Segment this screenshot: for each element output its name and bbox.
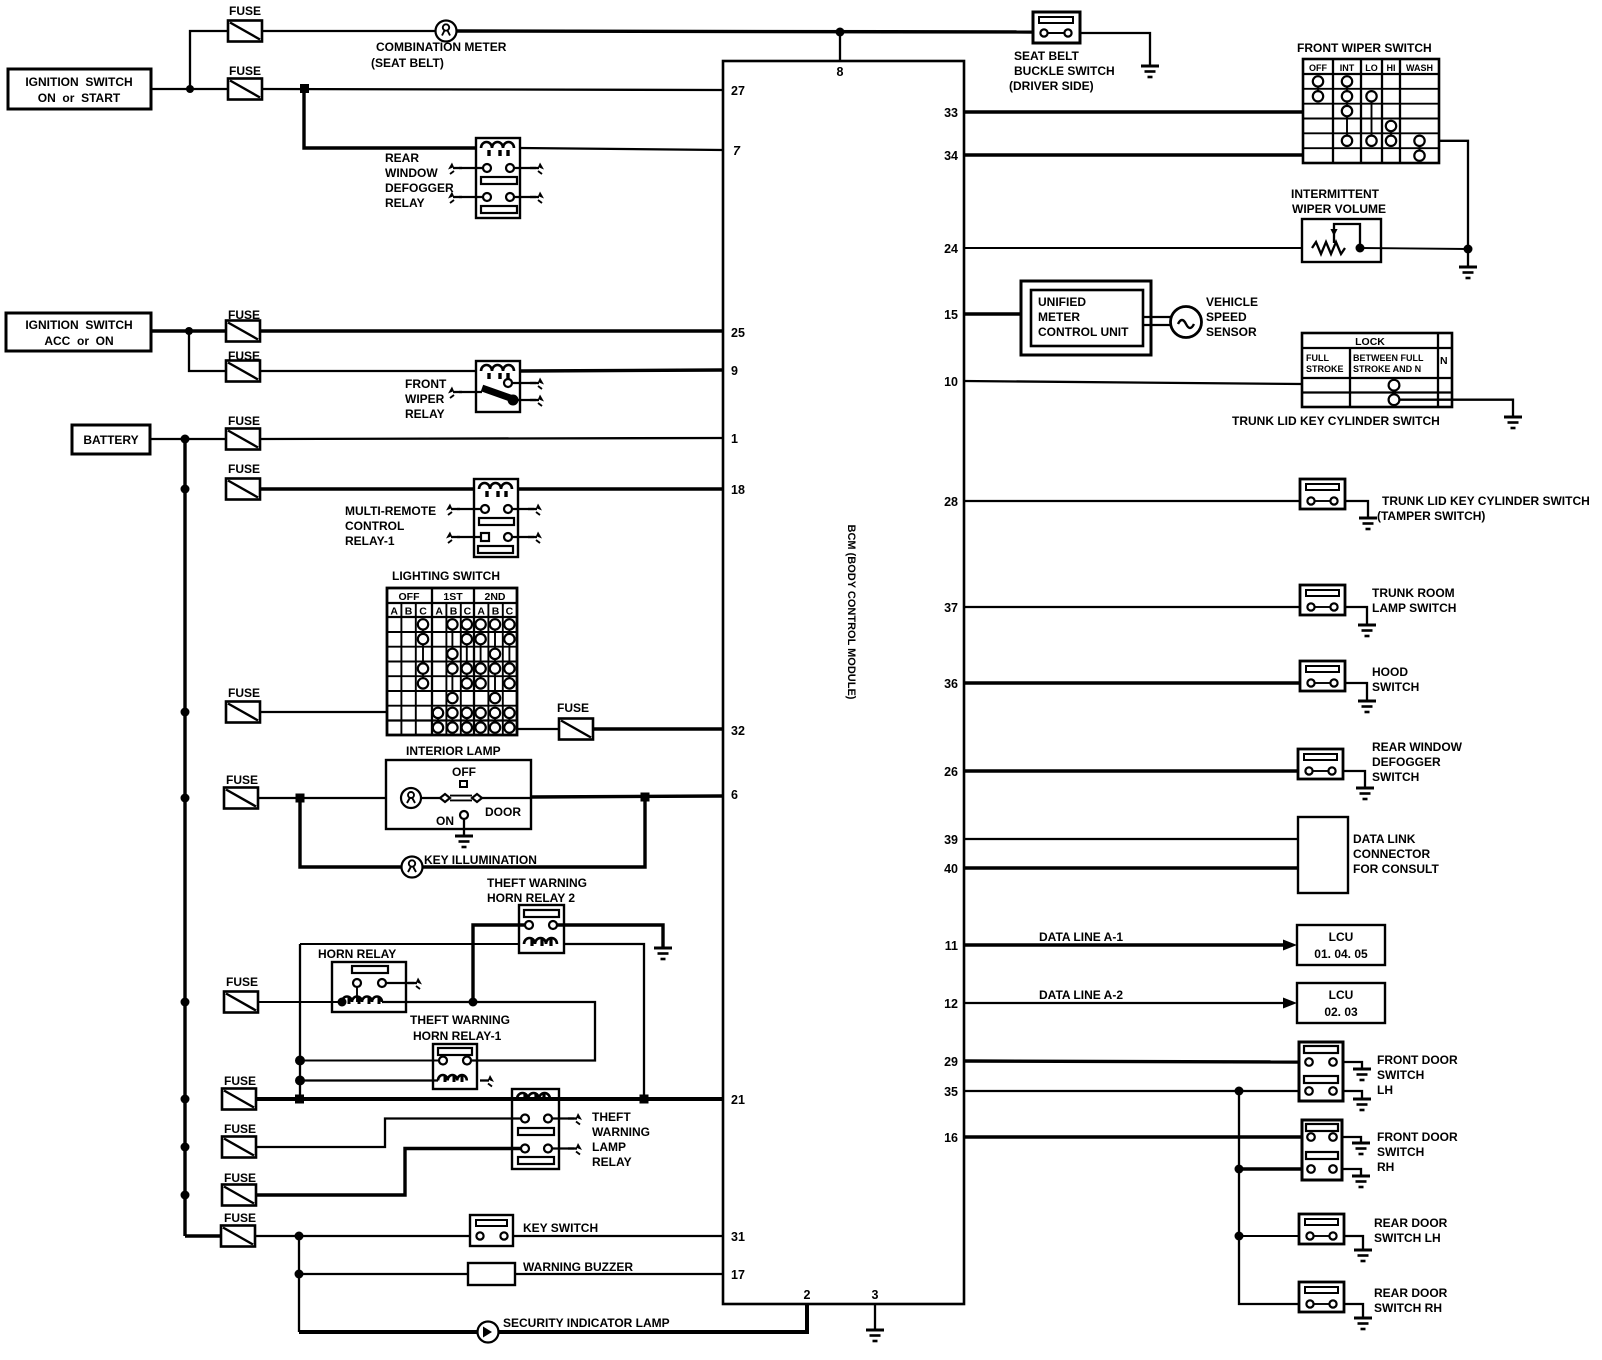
wire branch down to buzzer line (298, 1236, 300, 1332)
wire F7 to lighting switch (260, 711, 387, 713)
wire BCM pin 36 to hood switch (964, 681, 1300, 684)
BCM (Body Control Module) box U1 (723, 61, 964, 1304)
wire defogger relay to BCM pin 7 (520, 148, 723, 150)
svg-text:WIPER: WIPER (405, 392, 445, 406)
junction pin21-riser right (640, 1095, 649, 1104)
wire relay1 coil to riser (299, 1079, 438, 1081)
fuse F12 (222, 1185, 256, 1206)
wire BCM pin 3 to ground (874, 1304, 876, 1330)
svg-text:C: C (464, 606, 472, 618)
svg-text:OFF: OFF (1309, 63, 1327, 73)
svg-text:11: 11 (945, 939, 958, 953)
ground front door LH lower (1353, 1098, 1371, 1110)
wire buzzer to BCM pin 17 (515, 1273, 723, 1275)
svg-text:2: 2 (804, 1288, 811, 1302)
junction bus-F9 (181, 998, 190, 1007)
svg-text:FULL: FULL (1306, 353, 1329, 363)
svg-text:DOOR: DOOR (485, 805, 521, 819)
junction door bus rear LH (1235, 1232, 1244, 1241)
svg-text:29: 29 (944, 1055, 958, 1069)
svg-text:27: 27 (731, 84, 745, 98)
wire bus corner to F13 (185, 1234, 221, 1237)
svg-text:24: 24 (944, 242, 958, 256)
junction node A (pin27 branch) (300, 84, 309, 93)
wire to warning buzzer (299, 1273, 468, 1275)
junction battery bus top (181, 435, 190, 444)
svg-text:SWITCH: SWITCH (1372, 680, 1419, 694)
svg-text:15: 15 (944, 308, 958, 322)
svg-text:BCM (BODY CONTROL MODULE): BCM (BODY CONTROL MODULE) (845, 525, 857, 700)
combination meter (seat belt) lamp (371, 21, 507, 71)
junction pin21-riser left (295, 1095, 304, 1104)
wire defogger switch to ground (1343, 771, 1365, 788)
svg-text:THEFT: THEFT (592, 1110, 631, 1124)
junction door bus top (1235, 1087, 1244, 1096)
svg-text:SWITCH: SWITCH (1377, 1145, 1424, 1159)
svg-text:10: 10 (944, 375, 958, 389)
fuse F13 (221, 1226, 255, 1247)
svg-text:BATTERY: BATTERY (83, 433, 138, 447)
svg-text:REAR WINDOW: REAR WINDOW (1372, 740, 1463, 754)
fuse F2 (228, 79, 262, 100)
svg-text:C: C (506, 606, 514, 618)
svg-text:31: 31 (731, 1230, 745, 1244)
svg-text:DATA LINE A-1: DATA LINE A-1 (1039, 930, 1123, 944)
ground trunk room lamp switch (1358, 624, 1376, 636)
svg-text:MULTI-REMOTE: MULTI-REMOTE (345, 504, 436, 518)
svg-text:SENSOR: SENSOR (1206, 325, 1257, 339)
svg-text:18: 18 (731, 483, 745, 497)
ground tamper switch (1359, 517, 1377, 529)
svg-text:ON: ON (436, 814, 454, 828)
svg-text:33: 33 (944, 106, 958, 120)
fuse F8 (224, 788, 258, 809)
svg-text:THEFT WARNING: THEFT WARNING (410, 1013, 510, 1027)
svg-text:SECURITY INDICATOR LAMP: SECURITY INDICATOR LAMP (503, 1316, 670, 1330)
svg-text:FRONT DOOR: FRONT DOOR (1377, 1053, 1458, 1067)
svg-text:OFF: OFF (399, 591, 421, 603)
svg-text:HOOD: HOOD (1372, 665, 1408, 679)
svg-text:REAR DOOR: REAR DOOR (1374, 1216, 1448, 1230)
wire BCM pin 34 to front wiper switch (964, 153, 1303, 156)
svg-text:METER: METER (1038, 310, 1080, 324)
trunk room lamp switch (1300, 585, 1456, 615)
svg-text:RELAY: RELAY (385, 196, 425, 210)
fuse F5 (226, 429, 260, 450)
svg-text:COMBINATION METER: COMBINATION METER (376, 40, 507, 54)
svg-text:16: 16 (944, 1131, 958, 1145)
svg-text:ACC or ON: ACC or ON (44, 334, 113, 348)
rear window defogger relay (385, 138, 544, 218)
seat belt buckle switch (driver side) (1009, 12, 1115, 93)
lighting switch contact circles (418, 619, 515, 733)
svg-text:LH: LH (1377, 1083, 1393, 1097)
svg-text:SPEED: SPEED (1206, 310, 1247, 324)
svg-text:WIPER VOLUME: WIPER VOLUME (1292, 202, 1386, 216)
wire front door RH upper to ground (1342, 1137, 1361, 1143)
fuse F11 (222, 1137, 256, 1158)
svg-text:WARNING BUZZER: WARNING BUZZER (523, 1260, 633, 1274)
svg-text:6: 6 (731, 788, 738, 802)
svg-text:REAR DOOR: REAR DOOR (1374, 1286, 1448, 1300)
svg-text:KEY ILLUMINATION: KEY ILLUMINATION (424, 853, 537, 867)
svg-text:39: 39 (944, 833, 958, 847)
wire key switch to BCM pin 31 (513, 1235, 723, 1237)
svg-text:7: 7 (733, 144, 741, 158)
wire F12 to lamp relay lower contact (256, 1149, 521, 1196)
trunk lid key cylinder switch (tamper switch) (1300, 479, 1590, 523)
svg-text:BETWEEN FULL: BETWEEN FULL (1353, 353, 1424, 363)
svg-text:TRUNK LID KEY CYLINDER SWITCH: TRUNK LID KEY CYLINDER SWITCH (1382, 494, 1590, 508)
wire BCM pin 39 to data link connector (964, 838, 1298, 840)
svg-text:KEY SWITCH: KEY SWITCH (523, 1221, 598, 1235)
wire battery to fuse F5 (150, 438, 226, 440)
svg-text:WASH: WASH (1406, 63, 1433, 73)
svg-text:STROKE: STROKE (1306, 364, 1344, 374)
svg-text:RELAY: RELAY (405, 407, 445, 421)
svg-text:CONNECTOR: CONNECTOR (1353, 847, 1430, 861)
fuse F10 (222, 1089, 256, 1110)
wire multi-remote relay to BCM pin 18 (518, 487, 723, 490)
svg-text:26: 26 (944, 765, 958, 779)
junction door bus RH (1235, 1165, 1244, 1174)
svg-text:RELAY: RELAY (592, 1155, 632, 1169)
wire BCM pin 11 to LCU1 (964, 943, 1290, 946)
wire F4 to front wiper relay (260, 370, 476, 372)
wire combination meter to seat belt buckle switch (457, 31, 1034, 32)
svg-text:UNIFIED: UNIFIED (1038, 295, 1086, 309)
svg-text:FUSE: FUSE (228, 414, 260, 428)
interior lamp assembly (386, 744, 531, 836)
junction bus-F7 (181, 708, 190, 717)
data link connector for CONSULT (1298, 817, 1439, 893)
theft warning lamp relay (512, 1089, 650, 1169)
wire security indicator line (299, 1330, 478, 1334)
svg-text:FUSE: FUSE (224, 1074, 256, 1088)
wire F1 to combination meter (262, 30, 436, 32)
svg-text:FUSE: FUSE (557, 701, 589, 715)
svg-text:A: A (477, 606, 485, 618)
wire key illumination loop (300, 798, 402, 867)
svg-text:FUSE: FUSE (228, 462, 260, 476)
svg-text:LCU: LCU (1329, 930, 1354, 944)
svg-text:THEFT WARNING: THEFT WARNING (487, 876, 587, 890)
svg-text:32: 32 (731, 724, 745, 738)
wire BCM pin 16 to front door switch RH (964, 1135, 1302, 1138)
wire ACC riser down (189, 331, 226, 371)
junction bus-F11 (181, 1143, 190, 1152)
wire front wiper relay to BCM pin 9 (520, 370, 723, 371)
ignition switch ACC/ON source box (6, 313, 151, 351)
svg-text:HORN RELAY 2: HORN RELAY 2 (487, 891, 575, 905)
svg-text:9: 9 (731, 364, 738, 378)
junction pin6 branch (641, 793, 650, 802)
svg-text:DATA LINE A-2: DATA LINE A-2 (1039, 988, 1123, 1002)
svg-text:B: B (492, 606, 500, 618)
wire BCM pin 28 to tamper switch (964, 500, 1301, 502)
trunk lid key cylinder switch (lock table) (1232, 333, 1452, 428)
wire F6 to multi-remote control relay (260, 487, 474, 490)
wire BCM pin 15 to unified meter control unit (964, 312, 1021, 315)
svg-text:VEHICLE: VEHICLE (1206, 295, 1258, 309)
svg-text:SEAT BELT: SEAT BELT (1014, 49, 1080, 63)
svg-text:A: A (435, 606, 443, 618)
ground front door RH lower (1352, 1175, 1370, 1187)
fuse F9 (224, 992, 258, 1013)
junction ignition ON bus (186, 85, 194, 93)
wire node 8 to BCM pin 8 (839, 32, 841, 61)
svg-text:FRONT WIPER SWITCH: FRONT WIPER SWITCH (1297, 41, 1432, 55)
svg-text:N: N (1440, 355, 1448, 367)
wire BCM pin 24 to intermittent wiper volume (964, 247, 1302, 249)
wire tamper switch to ground (1345, 501, 1368, 518)
wire junction to ground (1467, 249, 1469, 267)
wire hood switch to ground (1345, 683, 1367, 701)
svg-text:HORN RELAY-1: HORN RELAY-1 (413, 1029, 502, 1043)
wire BCM pin 37 to trunk room lamp switch (964, 606, 1300, 608)
wire front door LH upper to ground (1343, 1062, 1362, 1069)
svg-text:LAMP SWITCH: LAMP SWITCH (1372, 601, 1456, 615)
hood switch (1300, 661, 1419, 694)
fuse F14 (559, 719, 593, 740)
wire F10 to BCM pin 21 (256, 1097, 723, 1101)
svg-text:C: C (419, 606, 427, 618)
svg-text:OFF: OFF (452, 765, 476, 779)
wire trunk room switch to ground (1345, 607, 1367, 625)
wire interior lamp to BCM pin 6 (531, 796, 723, 797)
svg-text:SWITCH: SWITCH (1372, 770, 1419, 784)
wire F14 to BCM pin 32 (593, 727, 723, 730)
ground rear window defogger switch (1356, 787, 1374, 799)
wire F5 to BCM pin 1 (260, 438, 723, 439)
svg-text:STROKE AND N: STROKE AND N (1353, 364, 1421, 374)
wire lighting switch to fuse F14 (517, 728, 559, 730)
battery bus vertical (183, 439, 186, 1236)
svg-text:TRUNK LID KEY CYLINDER SWITCH: TRUNK LID KEY CYLINDER SWITCH (1232, 414, 1440, 428)
junction key illumination branch (296, 794, 305, 803)
warning buzzer (468, 1260, 633, 1285)
svg-text:(DRIVER SIDE): (DRIVER SIDE) (1009, 79, 1094, 93)
wire front wiper switch wash row to intermittent volume junction (1439, 141, 1468, 249)
svg-text:CONTROL UNIT: CONTROL UNIT (1038, 325, 1129, 339)
rear door switch RH (1299, 1282, 1448, 1315)
svg-text:LAMP: LAMP (592, 1140, 626, 1154)
wire relay1 contacts to pin21 riser (299, 1060, 440, 1062)
junction relay1 contact line (295, 1056, 305, 1066)
svg-text:28: 28 (944, 495, 958, 509)
wire ignition ACC to fuse F3 (151, 329, 226, 332)
wire relay2 left contact riser (473, 925, 525, 1002)
front door switch LH (1299, 1042, 1458, 1101)
svg-text:25: 25 (731, 326, 745, 340)
junction relay1 coil line (295, 1076, 305, 1086)
svg-text:LOCK: LOCK (1355, 336, 1385, 348)
svg-text:3: 3 (872, 1288, 879, 1302)
junction bus-F12 (181, 1191, 190, 1200)
svg-text:FUSE: FUSE (224, 1122, 256, 1136)
junction relay2 riser on F9 line (469, 998, 478, 1007)
svg-text:IGNITION SWITCH: IGNITION SWITCH (25, 318, 132, 332)
wire key illumination to pin6 branch (423, 797, 646, 867)
svg-text:1ST: 1ST (443, 591, 463, 603)
svg-text:BUCKLE SWITCH: BUCKLE SWITCH (1014, 64, 1115, 78)
vehicle speed sensor (1171, 295, 1259, 339)
svg-text:FUSE: FUSE (228, 686, 260, 700)
junction bus-F8 (181, 794, 190, 803)
junction node 8 (836, 28, 845, 37)
svg-text:REAR: REAR (385, 151, 419, 165)
wire F8 to interior lamp (258, 797, 386, 799)
key illumination lamp (402, 853, 537, 878)
svg-text:12: 12 (944, 997, 958, 1011)
fuse F6 (226, 479, 260, 500)
key switch (470, 1215, 598, 1246)
unified meter control unit (1021, 281, 1171, 355)
wire BCM pin 10 to trunk lid key cylinder switch (964, 381, 1302, 384)
theft warning horn relay-1 (410, 1013, 510, 1089)
svg-text:RELAY-1: RELAY-1 (345, 534, 395, 548)
svg-text:CONTROL: CONTROL (345, 519, 404, 533)
wire F11 to lamp relay upper contact (256, 1119, 521, 1148)
ground hood switch (1358, 700, 1376, 712)
svg-text:WINDOW: WINDOW (385, 166, 438, 180)
wire F13 to key switch (255, 1235, 470, 1237)
svg-text:FUSE: FUSE (224, 1211, 256, 1225)
wire seat belt switch to ground (1080, 33, 1150, 66)
svg-text:IGNITION SWITCH: IGNITION SWITCH (25, 75, 132, 89)
junction buzzer branch (295, 1270, 304, 1279)
svg-text:SWITCH LH: SWITCH LH (1374, 1231, 1441, 1245)
lighting switch table (387, 569, 517, 735)
wire BCM pin 12 to LCU2 (964, 1002, 1290, 1004)
wire door bus to front door RH lower (1239, 1167, 1302, 1170)
svg-text:HORN RELAY: HORN RELAY (318, 947, 396, 961)
junction ACC bus (185, 327, 193, 335)
wire F9 to horn relay (258, 1001, 342, 1003)
svg-text:34: 34 (944, 149, 958, 163)
svg-text:8: 8 (837, 65, 844, 79)
svg-text:01. 04. 05: 01. 04. 05 (1314, 947, 1368, 961)
LCU 01 04 05 box (1297, 925, 1385, 965)
wire BCM pin 29 to front door switch LH (964, 1061, 1299, 1062)
ground theft warning horn relay 2 (654, 947, 672, 959)
ground front door RH upper (1352, 1142, 1370, 1154)
svg-text:ON or START: ON or START (38, 91, 121, 105)
svg-text:40: 40 (944, 862, 958, 876)
svg-text:2ND: 2ND (484, 591, 505, 603)
svg-text:35: 35 (944, 1085, 958, 1099)
wire F3 to BCM pin 25 (260, 329, 723, 332)
fuse F4 (226, 361, 260, 382)
svg-text:RH: RH (1377, 1160, 1394, 1174)
rear window defogger switch (1298, 740, 1463, 784)
wire rear door RH to ground (1344, 1304, 1363, 1318)
wire front door RH lower to ground (1342, 1169, 1361, 1176)
ground rear door RH (1354, 1317, 1372, 1329)
wire rear door LH to ground (1344, 1236, 1363, 1250)
svg-text:LIGHTING SWITCH: LIGHTING SWITCH (392, 569, 500, 583)
junction bus-F10 (181, 1095, 190, 1104)
svg-text:FUSE: FUSE (226, 975, 258, 989)
svg-text:WARNING: WARNING (592, 1125, 650, 1139)
wire relay2 right contact to ground (557, 925, 663, 947)
svg-text:(TAMPER SWITCH): (TAMPER SWITCH) (1377, 509, 1485, 523)
fuse F3 (226, 321, 260, 342)
ground pin 3 (866, 1329, 884, 1341)
wire F2 to BCM pin 27 (262, 89, 723, 90)
ground rear door LH (1354, 1249, 1372, 1261)
wire branch to rear window defogger relay (304, 89, 476, 148)
wire security lamp to BCM pin 2 (499, 1304, 808, 1332)
ground front door LH upper (1353, 1068, 1371, 1080)
ground intermittent wiper (1459, 266, 1477, 278)
svg-text:(SEAT BELT): (SEAT BELT) (371, 56, 444, 70)
ground trunk lid key cylinder switch (1504, 416, 1522, 428)
svg-text:DEFOGGER: DEFOGGER (385, 181, 454, 195)
svg-text:FOR CONSULT: FOR CONSULT (1353, 862, 1439, 876)
rear door switch LH (1299, 1214, 1448, 1245)
wire F9 line through to corner (382, 1002, 595, 1061)
wire lock table to ground (1399, 400, 1513, 417)
svg-text:A: A (390, 606, 398, 618)
svg-text:FUSE: FUSE (224, 1171, 256, 1185)
svg-text:21: 21 (731, 1093, 745, 1107)
front door switch RH (1302, 1120, 1458, 1180)
wire BCM pin 26 to rear window defogger switch (964, 769, 1298, 772)
wire BCM pin 35 to front door switch LH lower (964, 1090, 1299, 1092)
svg-text:02. 03: 02. 03 (1324, 1005, 1358, 1019)
svg-text:INTERIOR LAMP: INTERIOR LAMP (406, 744, 501, 758)
wire BCM pin 33 to front wiper switch (964, 110, 1303, 113)
svg-text:FUSE: FUSE (226, 773, 258, 787)
svg-text:FUSE: FUSE (229, 4, 261, 18)
front wiper relay (405, 361, 544, 421)
ignition switch ON/START source box (8, 69, 151, 109)
junction bus-F6 (181, 485, 190, 494)
multi-remote control relay-1 (345, 479, 542, 557)
svg-text:HI: HI (1387, 63, 1396, 73)
svg-text:SWITCH: SWITCH (1377, 1068, 1424, 1082)
svg-text:B: B (450, 606, 458, 618)
LCU 02 03 box (1297, 983, 1385, 1023)
wire front door LH lower to ground (1343, 1091, 1362, 1099)
security indicator lamp (478, 1316, 670, 1343)
svg-text:SWITCH RH: SWITCH RH (1374, 1301, 1442, 1315)
junction intermittent volume / wiper switch (1464, 245, 1473, 254)
front wiper switch table (1297, 41, 1439, 163)
svg-text:1: 1 (731, 432, 738, 446)
svg-text:INT: INT (1340, 63, 1355, 73)
svg-text:DEFOGGER: DEFOGGER (1372, 755, 1441, 769)
junction horn relay coil (338, 998, 347, 1007)
wire BCM pin 40 to data link connector (964, 866, 1298, 869)
battery source box (72, 425, 150, 454)
fuse F1 (228, 21, 262, 42)
svg-text:INTERMITTENT: INTERMITTENT (1291, 187, 1380, 201)
ground interior lamp (455, 835, 473, 847)
svg-text:37: 37 (944, 601, 958, 615)
wire ignition ON to fuse bus (151, 88, 227, 90)
wire door bus to rear door switch LH (1239, 1235, 1299, 1237)
horn relay (318, 947, 422, 1012)
svg-text:DATA LINK: DATA LINK (1353, 832, 1416, 846)
svg-text:36: 36 (944, 677, 958, 691)
svg-text:FUSE: FUSE (229, 64, 261, 78)
wire door bus vertical (1239, 1091, 1299, 1304)
svg-text:TRUNK ROOM: TRUNK ROOM (1372, 586, 1455, 600)
fuse F7 (226, 702, 260, 723)
svg-text:B: B (405, 606, 413, 618)
